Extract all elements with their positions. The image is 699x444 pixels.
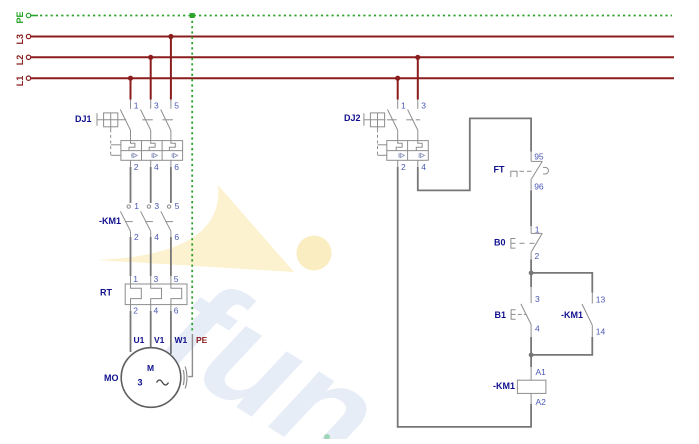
svg-text:PE: PE (15, 11, 25, 23)
svg-text:B0: B0 (494, 238, 506, 248)
svg-text:4: 4 (154, 232, 159, 242)
junction L1 to DJ2 (395, 76, 400, 81)
svg-text:L3: L3 (15, 34, 25, 45)
svg-text:DJ2: DJ2 (344, 113, 361, 123)
motor breaker DJ1 (97, 100, 183, 168)
wire PE to motor (188, 334, 192, 377)
wire RT pin2 to motor U1 (130, 311, 132, 352)
svg-text:4: 4 (535, 324, 540, 334)
wire B1 to junction (530, 337, 532, 355)
DJ2 magnetic trip pole1 (399, 153, 404, 157)
wire FT to B0 (530, 191, 532, 227)
svg-text:W1: W1 (175, 335, 188, 345)
motor MO (121, 348, 181, 408)
junction PE tap (190, 13, 195, 18)
node L3 rail (26, 34, 674, 38)
wire KM1 aux return (531, 337, 592, 355)
svg-text:3: 3 (421, 101, 426, 111)
svg-text:3: 3 (535, 294, 540, 304)
svg-text:3: 3 (154, 201, 159, 211)
watermark green dot (324, 434, 330, 440)
svg-text:95: 95 (534, 152, 544, 162)
node L1 rail (26, 76, 674, 80)
svg-text:1: 1 (535, 225, 540, 235)
svg-text:2: 2 (535, 251, 540, 261)
svg-text:5: 5 (174, 274, 179, 284)
svg-text:13: 13 (596, 295, 606, 305)
svg-text:PE: PE (196, 335, 208, 345)
DJ2 magnetic trip pole2 (419, 153, 424, 157)
wire DJ1 pin2 to KM1 (130, 167, 132, 203)
svg-text:3: 3 (138, 378, 143, 388)
svg-text:2: 2 (133, 306, 138, 316)
wire DJ1 pin4 to KM1 (150, 167, 152, 203)
pushbutton B1 (511, 287, 531, 337)
junction L1 to DJ1 (128, 76, 133, 81)
wire L3 drop to DJ1 pin5 (170, 37, 172, 100)
svg-text:B1: B1 (495, 310, 507, 320)
watermark yellow triangle (96, 185, 294, 272)
junction L2 to DJ2 (415, 55, 420, 60)
DJ1 magnetic trip pole1 (132, 153, 137, 157)
wire KM1 pin4 to RT (150, 237, 152, 276)
svg-text:14: 14 (596, 327, 606, 337)
svg-text:2: 2 (134, 162, 139, 172)
svg-text:MO: MO (104, 373, 119, 383)
svg-text:4: 4 (154, 306, 159, 316)
svg-text:A2: A2 (536, 397, 547, 407)
junction node above B1 (529, 271, 534, 276)
wire branch to KM1 aux (531, 273, 592, 293)
svg-text:5: 5 (175, 201, 180, 211)
wire junction to coil A1 (530, 355, 532, 367)
svg-text:-KM1: -KM1 (493, 381, 515, 391)
motor tilde symbol (157, 380, 169, 385)
svg-text:L2: L2 (15, 55, 25, 66)
wire junction to B1 (530, 273, 532, 287)
wire B0 to junction (530, 260, 532, 273)
svg-text:1: 1 (401, 101, 406, 111)
svg-text:1: 1 (134, 201, 139, 211)
wire RT pin6 to motor W1 (170, 311, 172, 354)
svg-text:U1: U1 (134, 335, 145, 345)
svg-text:-KM1: -KM1 (99, 216, 121, 226)
pushbutton B0 (511, 226, 542, 260)
svg-text:RT: RT (100, 288, 112, 298)
wire L2 drop to DJ2 pin3 (417, 57, 419, 99)
svg-text:FT: FT (494, 165, 505, 175)
DJ1 magnetic trip pole2 (152, 153, 157, 157)
svg-text:1: 1 (134, 101, 139, 111)
watermark blue letters (138, 248, 406, 444)
wire RT pin4 to motor V1 (150, 311, 152, 348)
svg-text:A1: A1 (536, 367, 547, 377)
svg-text:2: 2 (401, 162, 406, 172)
wire KM1 pin2 to RT (130, 237, 132, 276)
svg-text:2: 2 (134, 232, 139, 242)
svg-text:6: 6 (174, 232, 179, 242)
wire KM1 pin6 to RT (170, 237, 172, 276)
thermal contact FT (511, 152, 549, 191)
wire coil A2 down (530, 404, 532, 427)
svg-text:DJ1: DJ1 (75, 114, 92, 124)
node PE rail (26, 13, 672, 17)
svg-text:6: 6 (174, 162, 179, 172)
wire L2 drop to DJ1 pin3 (150, 57, 152, 99)
junction L3 to DJ1 (168, 34, 173, 39)
watermark yellow circle (297, 236, 332, 271)
wire L1 drop to DJ1 pin1 (130, 78, 132, 99)
svg-text:V1: V1 (154, 335, 165, 345)
wire DJ1 pin6 to KM1 (170, 167, 172, 203)
wire DJ2 pin4 to FT 95 (418, 118, 531, 190)
junction node above coil (529, 353, 534, 358)
wire DJ2 pin2 left branch down (397, 167, 399, 427)
motor breaker DJ2 (364, 100, 428, 168)
svg-text:96: 96 (534, 182, 544, 192)
svg-text:4: 4 (421, 162, 426, 172)
node L2 rail (26, 55, 674, 59)
contactor KM1 main contacts (120, 205, 173, 237)
svg-text:3: 3 (154, 274, 159, 284)
svg-text:1: 1 (133, 274, 138, 284)
junction L2 to DJ1 (148, 55, 153, 60)
coil KM1 (517, 367, 546, 404)
svg-text:L1: L1 (15, 76, 25, 87)
wire bottom return (397, 426, 532, 428)
wire L1 drop to DJ2 pin1 (397, 78, 399, 99)
auxiliary contact KM1 13-14 (582, 293, 592, 338)
svg-text:-KM1: -KM1 (561, 310, 583, 320)
PE frame connection arcs (185, 367, 187, 389)
svg-text:6: 6 (174, 306, 179, 316)
svg-text:5: 5 (174, 101, 179, 111)
svg-text:M: M (147, 363, 154, 373)
svg-text:4: 4 (154, 162, 159, 172)
wire PE dashed drop (191, 16, 193, 334)
thermal relay RT (125, 276, 187, 311)
svg-text:3: 3 (154, 101, 159, 111)
DJ1 magnetic trip pole3 (172, 153, 177, 157)
